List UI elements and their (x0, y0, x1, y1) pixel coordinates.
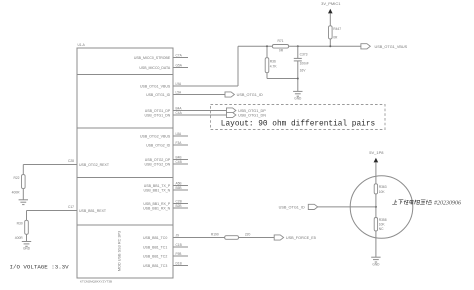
pin C17 USB_BB1_REXT (68, 205, 107, 213)
net tag USB_FORCE_E5 (274, 235, 316, 240)
wire R30 to ground (26, 234, 28, 241)
svg-text:USB_OTG2_DP: USB_OTG2_DP (145, 158, 171, 162)
svg-text:I/O VOLTAGE :3.3V: I/O VOLTAGE :3.3V (10, 264, 70, 271)
pin B4A USB_OTG1_DP (145, 106, 183, 112)
layout note dashed box (211, 105, 386, 130)
pin F3A USB_OTG2_ID (146, 141, 188, 147)
wire C373 tap down (297, 46, 299, 58)
svg-text:Layout: 90 ohm differential pa: Layout: 90 ohm differential pairs (221, 121, 376, 129)
pin J9 USB_BB1_TC0 (143, 233, 179, 239)
svg-text:10K: 10K (379, 223, 386, 227)
svg-text:R22: R22 (13, 176, 19, 180)
svg-text:B4A: B4A (176, 106, 183, 110)
revision note Chinese text (392, 200, 432, 205)
wire R190 to tag (239, 237, 275, 239)
svg-text:USB_BB1_RX_P: USB_BB1_RX_P (143, 202, 171, 206)
ground below R22 (19, 199, 28, 201)
power 5V_1P8 arrow (369, 150, 384, 184)
svg-text:R363: R363 (379, 185, 387, 189)
wire USB_OTG1_DP from chip (173, 110, 227, 112)
svg-text:USB_OTG1_ID: USB_OTG1_ID (146, 93, 171, 97)
pin L8A USB_OTG2_VBUS (140, 132, 188, 138)
svg-text:R36: R36 (270, 59, 276, 63)
wire R447 to VBUS wire (329, 39, 331, 46)
svg-text:USB_BB1_TX_P: USB_BB1_TX_P (144, 184, 171, 188)
svg-text:R447: R447 (333, 27, 341, 31)
ground GND below C373 (293, 90, 302, 92)
svg-text:16V: 16V (300, 68, 307, 72)
svg-text:B4B: B4B (176, 155, 182, 159)
svg-text:0R: 0R (333, 36, 338, 40)
svg-text:100nF: 100nF (300, 61, 309, 65)
pin C4B USB_OTG2_DN (145, 160, 188, 166)
pin B4B USB_OTG2_DP (145, 155, 188, 161)
svg-text:J9: J9 (176, 233, 180, 237)
pin B2B USB_BB1_RX_N (143, 204, 188, 210)
net tag USB_OTG1_VBUS (361, 44, 408, 49)
wire R36 tap down (266, 47, 268, 58)
svg-text:400R: 400R (12, 191, 21, 195)
wire R71 to R447 node (289, 45, 361, 47)
pin F9B USB_BB1_TC2 (143, 252, 188, 258)
svg-text:C28: C28 (68, 159, 74, 163)
svg-text:L9A: L9A (176, 82, 183, 86)
node junction at R36 tap (266, 45, 268, 47)
svg-text:USB_BB1_TC2: USB_BB1_TC2 (143, 254, 167, 258)
svg-text:USB_OTG2_ID: USB_OTG2_ID (146, 143, 171, 147)
resistor R358 NC pull-down (374, 218, 387, 232)
svg-text:USB_OTG2_REXT: USB_OTG2_REXT (79, 163, 110, 167)
ground GND below R30 (22, 241, 31, 243)
wire USB_BB1_TC0 to R190 (173, 237, 225, 239)
svg-text:R30: R30 (17, 222, 23, 226)
svg-text:A5B: A5B (176, 181, 182, 185)
pin C7A USB_MICC0_STROBE (134, 53, 188, 59)
svg-text:D1B: D1B (176, 261, 182, 265)
node junction at C373 tap (297, 45, 299, 47)
pin G5A USB_MICC0_DATA (139, 63, 188, 69)
svg-text:GND: GND (294, 97, 302, 101)
pin L5A USB_OTG1_ID (146, 90, 182, 96)
svg-text:L5A: L5A (176, 90, 183, 94)
resistor R71 0R (272, 39, 288, 52)
svg-text:B5B: B5B (176, 186, 182, 190)
svg-text:USB_OTG1_DP: USB_OTG1_DP (238, 109, 266, 113)
wire USB_OTG1_DN from chip (173, 114, 227, 116)
svg-text:4.7K: 4.7K (270, 64, 278, 68)
power 3V_PMIC1 arrow (321, 1, 341, 26)
svg-text:C2B: C2B (176, 199, 182, 203)
svg-text:USB_OTG2_VBUS: USB_OTG2_VBUS (140, 134, 171, 138)
SoC U1-A chip body (77, 48, 173, 278)
svg-text:USB_OTG1_DN: USB_OTG1_DN (145, 113, 171, 117)
svg-text:USB_BB1_TC1: USB_BB1_TC1 (143, 245, 167, 249)
pin L9A USB_OTG1_VBUS (140, 82, 182, 88)
pin C28 USB_OTG2_REXT (68, 159, 110, 167)
svg-text:10K: 10K (379, 190, 386, 194)
svg-text:400R: 400R (15, 236, 24, 240)
svg-text:C4A: C4A (176, 111, 183, 115)
wire USB_OTG1_VBUS from chip (173, 85, 238, 87)
svg-text:C7A: C7A (176, 53, 183, 57)
svg-text:220: 220 (245, 233, 251, 237)
node junction mid circle (375, 206, 377, 208)
svg-text:USB_OTG1_ID: USB_OTG1_ID (237, 93, 263, 97)
resistor R447 0R (329, 26, 342, 40)
svg-text:F9B: F9B (176, 252, 182, 256)
svg-text:KTCM2MQ8XXYZYT3B: KTCM2MQ8XXYZYT3B (80, 280, 112, 284)
svg-text:USB_OTG1_DP: USB_OTG1_DP (145, 109, 171, 113)
pin C2B USB_BB1_RX_P (143, 199, 188, 205)
svg-text:USB_BB1_TX_N: USB_BB1_TX_N (144, 188, 171, 192)
svg-text:C1B: C1B (176, 243, 182, 247)
svg-text:GND: GND (372, 262, 380, 266)
svg-text:U1-A: U1-A (78, 43, 86, 47)
pin C1B USB_BB1_TC1 (143, 243, 188, 249)
svg-text:USB_BB1_REXT: USB_BB1_REXT (79, 209, 107, 213)
pin D1B USB_BB1_TC3 (143, 261, 188, 267)
svg-text:USB_BB1_TC0: USB_BB1_TC0 (143, 236, 167, 240)
net tag USB_OTG1_ID into circle (279, 204, 318, 209)
wire USB_OTG2_REXT to R22 (23, 164, 77, 166)
svg-text:USB_OTG1_DN: USB_OTG1_DN (238, 114, 266, 118)
node junction C373/R36 bottom (297, 78, 299, 80)
svg-text:3V_PMIC1: 3V_PMIC1 (321, 1, 341, 6)
node junction at R447 bottom (329, 45, 331, 47)
svg-text:USB_MICC0_DATA: USB_MICC0_DATA (139, 66, 170, 70)
svg-text:USB_BB1_TC3: USB_BB1_TC3 (143, 264, 167, 268)
svg-text:R358: R358 (379, 218, 387, 222)
resistor R30 (17, 220, 29, 234)
net tag USB_OTG1_DN (227, 112, 267, 117)
svg-text:USB_OTG1_VBUS: USB_OTG1_VBUS (140, 84, 171, 88)
svg-text:R190: R190 (211, 232, 219, 236)
net tag USB_OTG1_DP (227, 108, 267, 113)
wire USB_OTG1_ID from chip (173, 94, 225, 96)
svg-text:L8A: L8A (176, 132, 183, 136)
wire R358 to ground (375, 231, 377, 257)
resistor R22 (13, 175, 25, 189)
svg-text:USB_OTG2_DN: USB_OTG2_DN (145, 162, 171, 166)
svg-text:USB_OTG1_ID: USB_OTG1_ID (279, 206, 305, 210)
svg-text:C17: C17 (68, 205, 74, 209)
wire R363 to junction (375, 194, 377, 218)
svg-text:5V_1P8: 5V_1P8 (369, 150, 384, 155)
capacitor C373 100nF 16V (294, 52, 309, 72)
svg-text:NC: NC (379, 227, 384, 231)
svg-text:USB_FORCE_E5: USB_FORCE_E5 (286, 236, 316, 240)
resistor R190 (211, 232, 239, 239)
svg-text:USB_MICC0_STROBE: USB_MICC0_STROBE (134, 56, 171, 60)
svg-text:USB_BB1_RX_N: USB_BB1_RX_N (143, 206, 171, 210)
wire tag to circle junction (318, 206, 376, 208)
pin B5B USB_BB1_TX_N (144, 186, 188, 192)
svg-text:G5A: G5A (176, 63, 183, 67)
pin A5B USB_BB1_TX_P (144, 181, 188, 187)
resistor R363 10K pull-up (374, 184, 387, 194)
svg-text:GND: GND (23, 247, 31, 251)
svg-text:B2B: B2B (176, 204, 182, 208)
wire R22 to ground (22, 189, 24, 200)
svg-text:R71: R71 (277, 39, 283, 43)
svg-text:C4B: C4B (176, 160, 182, 164)
ground GND below circle (371, 256, 380, 258)
chip section divider lines (77, 74, 173, 76)
svg-text:#20230906: #20230906 (434, 200, 461, 206)
wire C373 to ground (297, 61, 299, 92)
wire USB_BB1_REXT to R30 (27, 210, 78, 212)
svg-text:USB_OTG1_VBUS: USB_OTG1_VBUS (375, 45, 408, 49)
svg-text:F3A: F3A (176, 141, 183, 145)
resistor R36 4.7K (265, 58, 277, 73)
pin C4A USB_OTG1_DN (145, 111, 183, 117)
svg-text:0R: 0R (279, 49, 284, 53)
svg-text:MOD USB SS3 RC 3P3: MOD USB SS3 RC 3P3 (117, 231, 121, 271)
net tag USB_OTG1_ID (225, 92, 263, 97)
connector circle (350, 176, 413, 239)
wire R36 bottom to C373 bottom (266, 73, 268, 79)
svg-text:C373: C373 (300, 52, 308, 56)
